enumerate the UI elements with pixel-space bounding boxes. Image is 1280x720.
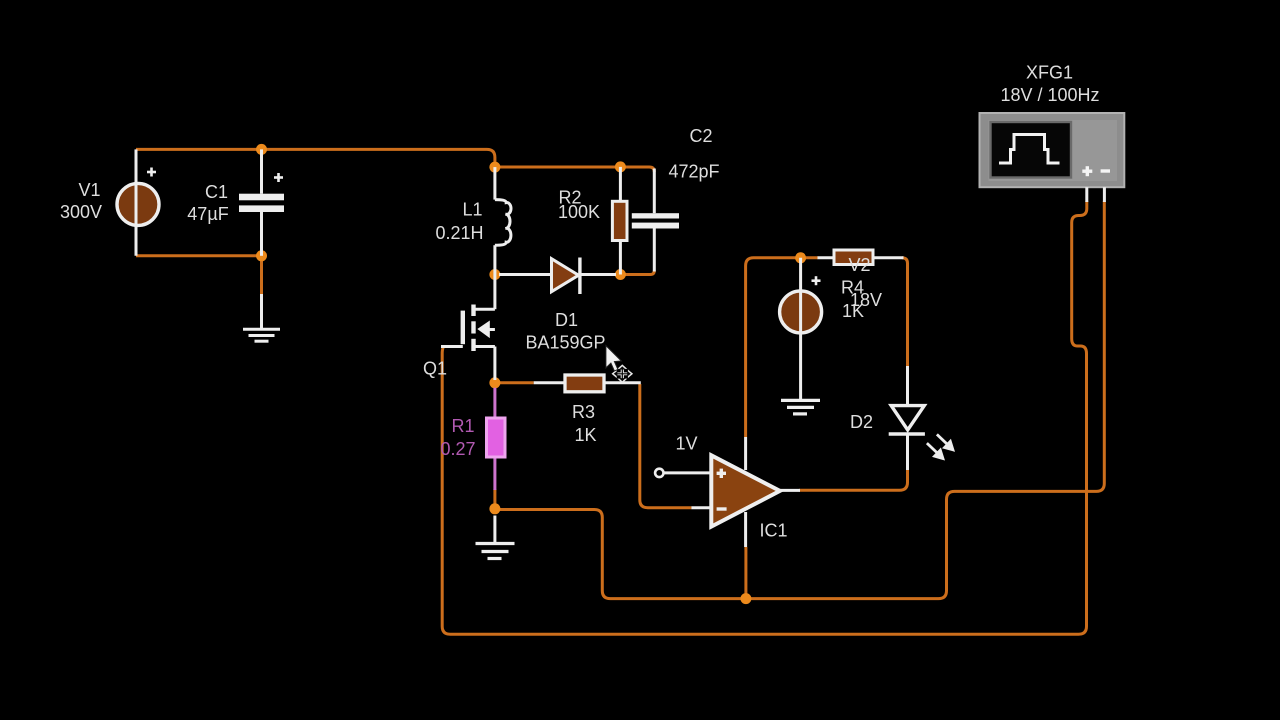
svg-text:0.27: 0.27 (440, 439, 475, 459)
svg-text:47µF: 47µF (187, 204, 228, 224)
svg-text:C1: C1 (205, 182, 228, 202)
svg-text:IC1: IC1 (759, 521, 787, 541)
svg-text:C2: C2 (689, 126, 712, 146)
svg-text:1K: 1K (574, 425, 596, 445)
svg-text:D1: D1 (555, 310, 578, 330)
svg-text:100K: 100K (558, 202, 600, 222)
svg-text:BA159GP: BA159GP (525, 333, 605, 353)
svg-text:V1: V1 (78, 180, 100, 200)
svg-text:472pF: 472pF (668, 162, 719, 182)
svg-text:1K: 1K (842, 301, 864, 321)
svg-text:L1: L1 (462, 200, 482, 220)
svg-text:0.21H: 0.21H (435, 223, 483, 243)
svg-text:D2: D2 (850, 412, 873, 432)
svg-text:1V: 1V (675, 434, 697, 454)
svg-text:Q1: Q1 (423, 359, 447, 379)
svg-text:XFG1: XFG1 (1026, 63, 1073, 83)
svg-text:V2: V2 (848, 255, 870, 275)
svg-text:R3: R3 (572, 402, 595, 422)
svg-text:R1: R1 (451, 416, 474, 436)
svg-text:300V: 300V (60, 202, 102, 222)
svg-text:18V / 100Hz: 18V / 100Hz (1000, 85, 1099, 105)
